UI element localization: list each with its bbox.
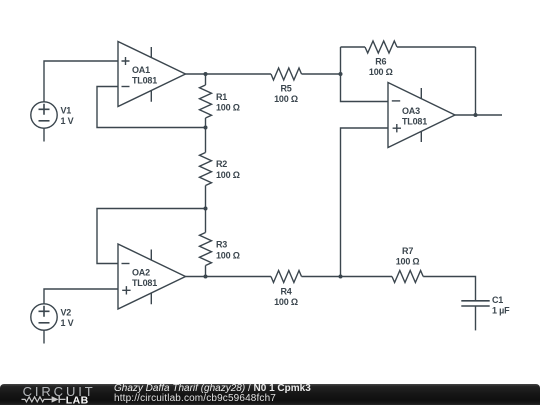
svg-text:LAB: LAB [66,394,89,405]
wire node A vertical to OA3 - input [341,47,389,102]
svg-text:1 V: 1 V [61,318,74,328]
op-amp OA2 [118,244,186,309]
svg-text:1 V: 1 V [61,116,74,126]
wire OA1 - input feedback loop [97,87,206,128]
footer bar [0,384,540,405]
wire OA2 output to R4 [186,276,272,278]
svg-text:C1: C1 [492,295,503,305]
svg-text:V1: V1 [61,105,72,115]
svg-text:OA3: OA3 [402,106,420,116]
svg-text:R5: R5 [280,84,291,94]
junction node OA1 out / R1 [204,72,208,76]
resistor R5 [271,68,302,104]
wire node B to R7 [341,276,393,278]
svg-text:1 µF: 1 µF [492,306,510,316]
wire R6 right side down to OA3 output [475,47,477,115]
svg-text:TL081: TL081 [402,117,427,127]
svg-text:100 Ω: 100 Ω [216,251,240,261]
wire R5 to node A [302,73,341,75]
svg-text:OA2: OA2 [132,268,150,278]
svg-text:V2: V2 [61,307,72,317]
resistor R7 [392,246,423,283]
wire OA3 output to right edge [455,114,502,116]
op-amp OA1 [118,42,186,107]
resistor R1 [200,74,240,128]
svg-text:100 Ω: 100 Ω [274,297,298,307]
svg-text:TL081: TL081 [132,278,157,288]
junction node OA3 out / R6 [474,113,478,117]
junction node A R5/R6 [339,72,343,76]
resistor R4 [271,271,302,308]
resistor R3 [200,209,240,277]
svg-text:100 Ω: 100 Ω [216,170,240,180]
voltage source V2 [31,304,74,344]
svg-text:100 Ω: 100 Ω [369,67,393,77]
junction node R2/R3 feedback [204,207,208,211]
svg-text:R6: R6 [375,57,386,67]
junction node B R4/R7 [339,275,343,279]
wire OA2 - input feedback loop [97,209,206,264]
voltage source V1 [31,102,74,142]
wire V1 to OA1 + input [44,61,118,102]
wire R7 to C1 [423,277,475,301]
wire OA3 + input loop down to node B [341,128,389,277]
svg-text:R7: R7 [402,246,413,256]
svg-text:R4: R4 [280,287,291,297]
op-amp OA3 [388,83,455,148]
CircuitLab logo [0,384,110,405]
wire OA2 + input to V2 [44,289,118,304]
svg-text:OA1: OA1 [132,65,150,75]
footer title text [114,384,311,394]
svg-text:R2: R2 [216,159,227,169]
capacitor C1 [461,295,510,330]
junction node R1/R2 feedback [204,126,208,130]
wire OA1 output to R5 [186,73,272,75]
svg-text:100 Ω: 100 Ω [396,257,420,267]
svg-text:100 Ω: 100 Ω [274,94,298,104]
svg-text:TL081: TL081 [132,76,157,86]
junction node OA2 out / R3 [204,275,208,279]
resistor R2 [200,128,240,209]
svg-text:R3: R3 [216,240,227,250]
footer url text [114,394,276,404]
resistor R6 [341,41,476,77]
svg-text:R1: R1 [216,92,227,102]
svg-text:100 Ω: 100 Ω [216,103,240,113]
wire R4 to node B [302,276,341,278]
